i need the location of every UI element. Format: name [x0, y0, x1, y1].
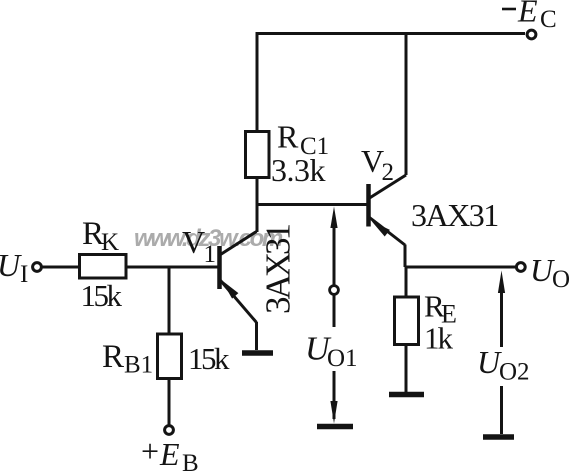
- voltage arrow UO2 bottom: [500, 386, 503, 434]
- wire node to V2 base: [256, 203, 367, 206]
- svg-text:15k: 15k: [81, 278, 123, 313]
- terminal UO: [516, 263, 525, 272]
- svg-text:3.3k: 3.3k: [271, 152, 326, 188]
- wire V2 emitter down: [404, 245, 407, 268]
- wire RB1 bottom lead: [168, 379, 171, 426]
- wire RE bottom lead: [405, 345, 408, 393]
- ground RE: [389, 392, 424, 398]
- svg-text:+: +: [141, 433, 159, 469]
- terminal UI: [33, 263, 42, 272]
- transistor V2: [369, 175, 407, 245]
- wire RK to V1 base: [126, 266, 218, 269]
- svg-text:V: V: [182, 224, 205, 260]
- ground V1 emitter: [242, 350, 273, 356]
- wire UI to RK: [42, 266, 80, 269]
- svg-text:1: 1: [204, 241, 217, 268]
- svg-text:U: U: [0, 247, 22, 283]
- svg-text:E: E: [517, 0, 538, 29]
- resistor RK: [80, 255, 127, 279]
- voltage arrow UO1 top: [330, 207, 337, 286]
- svg-text:2: 2: [382, 159, 395, 186]
- resistor RC1: [246, 132, 270, 178]
- terminal -EC: [527, 30, 536, 39]
- svg-text:B1: B1: [124, 352, 153, 379]
- svg-text:15k: 15k: [188, 341, 230, 376]
- terminal UO1: [330, 286, 339, 295]
- svg-text:O1: O1: [327, 345, 358, 372]
- svg-text:I: I: [20, 261, 28, 288]
- wire RE top lead: [405, 267, 408, 297]
- svg-text:E: E: [159, 436, 180, 471]
- svg-text:O: O: [552, 266, 569, 293]
- svg-text:R: R: [102, 339, 124, 375]
- transistor V1: [220, 232, 257, 323]
- svg-text:B: B: [182, 450, 199, 471]
- wire top rail: [257, 32, 525, 35]
- wire emitter node to output: [405, 266, 516, 269]
- svg-text:3AX31: 3AX31: [411, 197, 498, 233]
- label -EC: [502, 0, 557, 33]
- wire V2 collector vertical: [405, 32, 408, 175]
- wire V1 emitter down: [255, 322, 258, 350]
- resistor RE: [395, 297, 419, 345]
- svg-text:C: C: [540, 6, 557, 33]
- wire RC1 top lead: [256, 32, 259, 132]
- svg-text:K: K: [101, 229, 119, 256]
- resistor RB1: [158, 334, 182, 379]
- wire RB1 top lead: [168, 267, 171, 334]
- terminal +EB: [165, 426, 174, 435]
- svg-text:O2: O2: [499, 359, 530, 386]
- voltage arrow UO1 bottom: [330, 371, 337, 424]
- voltage arrow UO2 top: [498, 271, 505, 348]
- svg-text:3AX31: 3AX31: [259, 224, 298, 314]
- wire RC1 bottom lead: [256, 178, 259, 233]
- wire UO1 below terminal: [333, 295, 336, 328]
- svg-text:R: R: [277, 119, 299, 155]
- svg-text:1k: 1k: [424, 321, 454, 356]
- ground UO1: [317, 424, 353, 430]
- ground UO2: [483, 434, 514, 440]
- label +EB: [141, 433, 199, 471]
